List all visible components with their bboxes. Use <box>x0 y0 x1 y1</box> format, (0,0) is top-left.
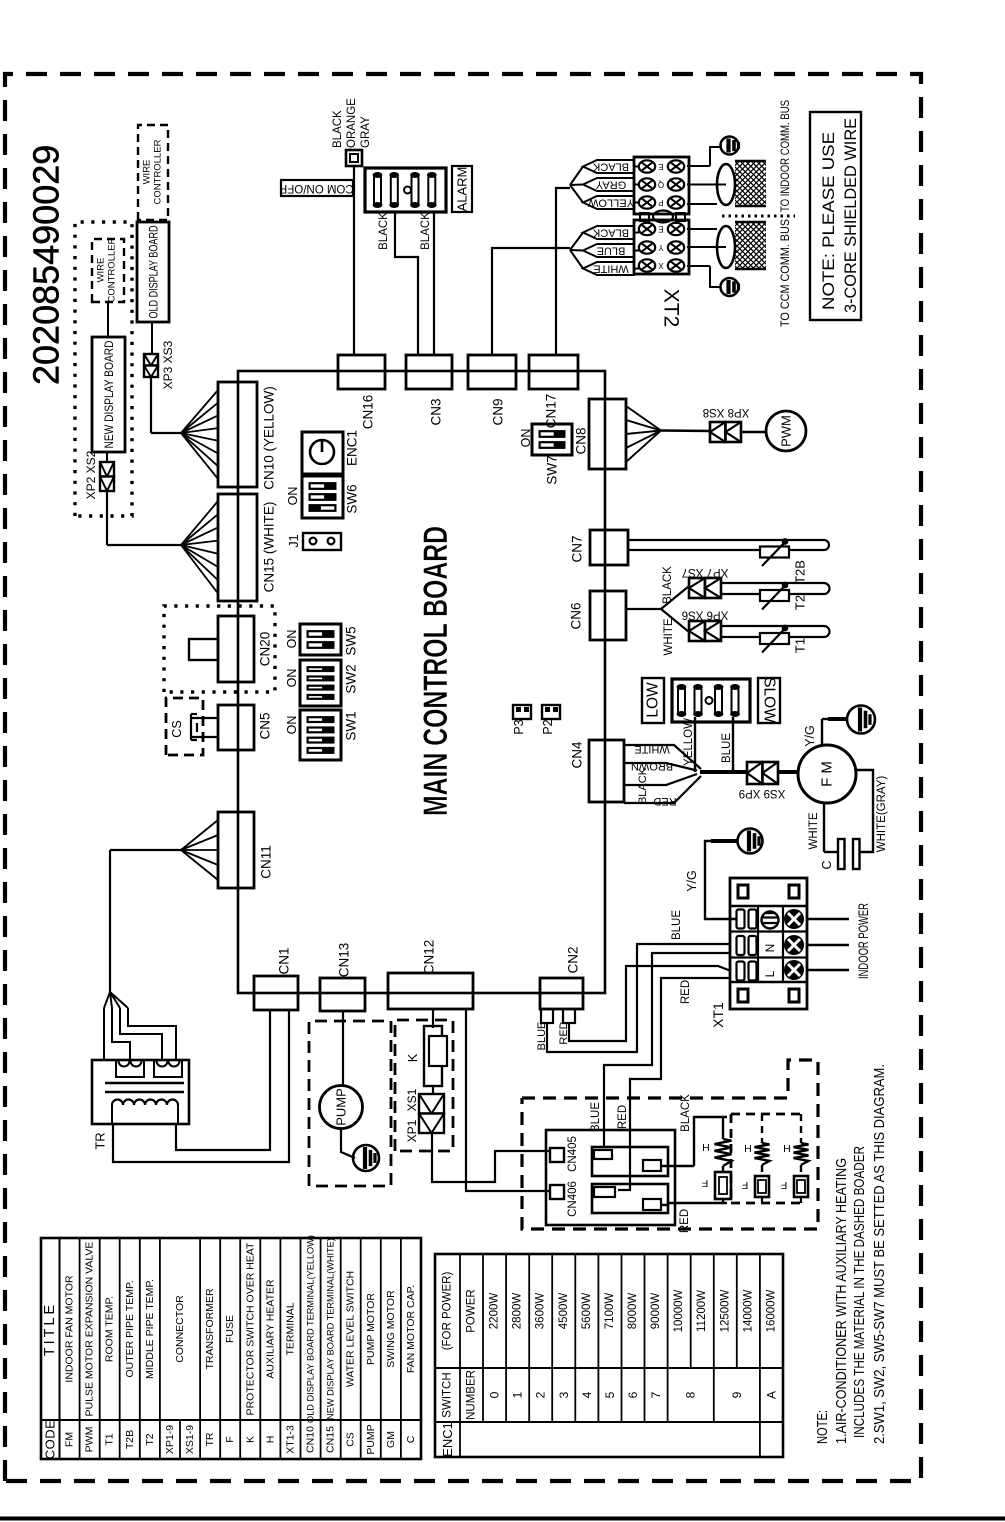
terminal block XT1 <box>730 878 807 1009</box>
protector K dashed box <box>395 1020 453 1151</box>
svg-text:XT2: XT2 <box>660 289 683 328</box>
svg-text:CN16: CN16 <box>361 395 376 430</box>
connector CN2 <box>540 978 583 1009</box>
svg-text:F: F <box>781 1179 787 1191</box>
wires flags to XT2 lower <box>634 233 639 269</box>
svg-text:AUXILIARY HEATER: AUXILIARY HEATER <box>264 1279 276 1379</box>
label ALARM box <box>452 166 472 212</box>
connector CN6 <box>590 591 626 640</box>
svg-text:SW1: SW1 <box>344 711 359 740</box>
svg-text:PWM: PWM <box>779 415 794 447</box>
fuse F1 <box>715 1172 731 1199</box>
svg-text:BLACK: BLACK <box>662 566 674 604</box>
connector pair XS9 XP9 <box>747 762 778 784</box>
svg-text:XP7 XS7: XP7 XS7 <box>682 566 729 578</box>
wire flag tail <box>570 250 583 269</box>
svg-text:L: L <box>763 970 777 977</box>
svg-text:CN7: CN7 <box>570 535 585 562</box>
svg-text:E: E <box>658 225 663 234</box>
svg-text:ENC1: ENC1 <box>440 1422 455 1457</box>
wire XP1 to CN405 <box>432 1133 550 1182</box>
thermistor T2 <box>760 582 789 609</box>
svg-text:CN15: CN15 <box>325 1426 337 1453</box>
fan motor capacitor C <box>838 839 860 869</box>
svg-text:2.SW1, SW2, SW5-SW7 MUST BE SE: 2.SW1, SW2, SW5-SW7 MUST BE SETTED AS TH… <box>872 1064 888 1444</box>
optional heater dashed cell box <box>731 1114 803 1203</box>
svg-text:CN4: CN4 <box>570 741 585 768</box>
main control board outline <box>238 371 605 993</box>
CN8 harness fan <box>626 406 661 462</box>
connector pair XP8 XS8 <box>710 422 741 442</box>
DIP switch SW7 <box>532 424 572 455</box>
wire CN12 pin2 to CN406 <box>466 1009 550 1191</box>
svg-text:XP8 XS8: XP8 XS8 <box>703 406 750 418</box>
primary harness fan to TR <box>104 992 176 1060</box>
connector CN15 <box>218 494 257 601</box>
DIP switch SW2 <box>300 660 341 706</box>
wire controller dashed box B <box>138 125 168 220</box>
wires XT2 to upper cable <box>687 147 726 204</box>
dotted enclosure new display board <box>75 222 132 516</box>
svg-text:ON: ON <box>519 429 533 448</box>
svg-text:K: K <box>244 1436 256 1443</box>
thermistor T2B <box>760 539 789 566</box>
temperature sensor T2B probe <box>628 540 829 550</box>
svg-text:PUMP: PUMP <box>365 1424 377 1454</box>
label WIRE CONTROLLER B <box>142 139 164 204</box>
svg-text:ORANGE: ORANGE <box>346 98 358 148</box>
svg-text:7: 7 <box>649 1391 663 1398</box>
svg-text:WATER LEVEL SWITCH: WATER LEVEL SWITCH <box>345 1271 357 1387</box>
svg-text:5: 5 <box>603 1391 617 1398</box>
svg-text:BLACK: BLACK <box>680 1094 692 1132</box>
ENC1 switch power table <box>435 1254 783 1457</box>
svg-text:CN11: CN11 <box>259 845 274 879</box>
svg-text:14000W: 14000W <box>742 1289 754 1332</box>
notes text <box>815 1064 888 1444</box>
svg-text:2: 2 <box>534 1391 548 1398</box>
wire flag tail <box>570 184 583 187</box>
svg-text:T2: T2 <box>144 1433 156 1445</box>
svg-text:4: 4 <box>580 1391 594 1398</box>
svg-text:FUSE: FUSE <box>224 1315 236 1343</box>
remote plug connector <box>346 150 362 166</box>
svg-text:BLACK: BLACK <box>332 110 344 148</box>
wire CN17 to upper flags <box>556 188 570 355</box>
svg-text:YELLOW: YELLOW <box>587 197 633 209</box>
OLD DISPLAY BOARD box <box>137 222 169 322</box>
dotted enclosure around CN20 <box>164 606 275 692</box>
svg-text:12500W: 12500W <box>719 1289 731 1332</box>
svg-text:XS1-9: XS1-9 <box>184 1425 196 1454</box>
wire Y/G to XT1 <box>705 841 736 919</box>
svg-text:9000W: 9000W <box>650 1293 662 1330</box>
CN10 harness fan <box>181 390 218 479</box>
svg-text:6: 6 <box>626 1391 640 1398</box>
svg-text:WHITE: WHITE <box>808 812 820 849</box>
svg-text:INCLUDES THE MATERIAL IN THE D: INCLUDES THE MATERIAL IN THE DASHED BOAD… <box>852 1146 868 1438</box>
svg-text:PUMP: PUMP <box>334 1088 349 1126</box>
wire BLACK heater to H1 <box>661 1117 727 1166</box>
svg-text:RED: RED <box>558 1021 570 1044</box>
svg-text:ROOM TEMP.: ROOM TEMP. <box>104 1296 116 1362</box>
wire flag tail <box>570 233 583 251</box>
svg-text:PULSE MOTOR EXPANSION VALVE: PULSE MOTOR EXPANSION VALVE <box>84 1242 96 1417</box>
svg-text:0: 0 <box>488 1391 502 1398</box>
svg-text:XP1-9: XP1-9 <box>164 1425 176 1454</box>
CN20 side tab <box>189 639 218 660</box>
wire XP8 to PWM <box>741 431 766 433</box>
flag YELLOW (upper) <box>583 196 634 209</box>
heater resistor H1 <box>715 1117 732 1172</box>
svg-text:T1: T1 <box>793 638 808 653</box>
svg-text:MAIN CONTROL BOARD: MAIN CONTROL BOARD <box>417 526 455 816</box>
svg-text:XT1-3: XT1-3 <box>285 1425 297 1454</box>
wire F3 to bus <box>800 1197 802 1203</box>
CN11 harness fan <box>181 820 218 880</box>
connector CN1 <box>254 976 298 1010</box>
label WIRE CONTROLLER A <box>96 237 118 302</box>
connector CN10 <box>218 382 257 487</box>
connector CN7 <box>590 530 628 565</box>
wire controller A to new display board <box>107 302 109 337</box>
svg-text:TERMINAL: TERMINAL <box>285 1302 297 1355</box>
aux heating dashed enclosure <box>522 1060 818 1229</box>
svg-text:9: 9 <box>730 1391 744 1398</box>
svg-text:CN10: CN10 <box>305 1426 317 1453</box>
connector CN16 <box>338 355 385 389</box>
CN4 wire black <box>624 774 697 785</box>
svg-text:COM ON/OFF: COM ON/OFF <box>280 182 353 194</box>
wire BLUE relay to FM wire <box>732 717 734 772</box>
temperature sensor T2 probe <box>721 583 830 594</box>
svg-text:BLUE: BLUE <box>721 733 733 763</box>
NEW DISPLAY BOARD box <box>92 337 125 452</box>
svg-text:F: F <box>702 1177 708 1189</box>
svg-text:TR: TR <box>93 1132 108 1149</box>
svg-text:WIRE: WIRE <box>96 258 107 283</box>
earth lug above XT1 <box>738 829 763 854</box>
transformer TR <box>92 1060 189 1124</box>
heater resistor H3 (dashed wiring) <box>794 1114 809 1176</box>
svg-text:T2B: T2B <box>793 560 808 584</box>
svg-text:J1: J1 <box>287 534 301 547</box>
COM ON/OFF label box <box>280 180 353 196</box>
CN4 wire red <box>624 776 701 803</box>
wires flags to XT2 upper <box>634 167 639 203</box>
svg-text:3: 3 <box>557 1391 571 1398</box>
shield drain lug lower <box>721 278 739 296</box>
shield drain lug upper <box>721 137 739 155</box>
upper shielded cable <box>717 161 766 206</box>
svg-text:1.AIR-CONDITIONER WITH AUXILIA: 1.AIR-CONDITIONER WITH AUXILIARY HEATING <box>834 1158 850 1444</box>
svg-text:OLD DISPLAY BOARD: OLD DISPLAY BOARD <box>147 225 161 318</box>
wire CN8 to XP8 <box>661 429 710 432</box>
svg-text:CODE: CODE <box>43 1420 58 1460</box>
wire CN16 to remote plug <box>353 166 355 355</box>
svg-text:BLACK: BLACK <box>637 767 649 804</box>
svg-text:T2B: T2B <box>124 1430 136 1449</box>
wire XT1 L to heater CN406 side (red) <box>618 978 731 1190</box>
indoor power leads <box>807 919 849 970</box>
svg-text:RED: RED <box>680 980 692 1004</box>
connector CN3 <box>406 355 452 389</box>
wire flag tail <box>570 185 583 203</box>
svg-text:TITLE: TITLE <box>42 1302 58 1356</box>
svg-text:SW5: SW5 <box>344 626 359 655</box>
svg-text:FAN MOTOR CAP.: FAN MOTOR CAP. <box>405 1285 417 1373</box>
connector pair XP2 XS2 <box>100 462 114 491</box>
wire new display board to XP2 <box>106 452 108 462</box>
CN4 wire white <box>624 745 701 769</box>
pump earth lug <box>353 1145 379 1171</box>
wire old display board to XP3 <box>151 322 153 354</box>
svg-text:PUMP MOTOR: PUMP MOTOR <box>365 1293 377 1365</box>
terminal CN406 <box>550 1185 564 1199</box>
wire CN2 pin1 to XT1 N (blue) <box>547 944 731 1052</box>
wire flag tail <box>570 167 583 186</box>
connector CN8 <box>589 399 626 469</box>
wire pump to lug <box>341 1128 355 1158</box>
DIP switch SW5 <box>300 624 341 655</box>
connector CN4 <box>589 740 624 802</box>
water level switch CS dashed box <box>166 698 203 755</box>
svg-text:XP6 XS6: XP6 XS6 <box>682 609 729 621</box>
svg-text:CN3: CN3 <box>429 398 444 425</box>
svg-text:BLACK: BLACK <box>378 212 390 250</box>
heater element upper <box>592 1147 668 1176</box>
wire CN2 pin2 to XT1 L (red) <box>569 966 731 1041</box>
wire flag tail <box>570 249 583 252</box>
wire CN6 split <box>626 586 689 632</box>
flag BLACK (upper) <box>583 160 634 173</box>
svg-text:(FOR POWER): (FOR POWER) <box>442 1272 454 1351</box>
label LOW box <box>642 678 664 723</box>
svg-text:NOTE:: NOTE: <box>815 1410 831 1444</box>
svg-text:TR: TR <box>204 1432 216 1446</box>
svg-text:RED: RED <box>653 795 676 807</box>
svg-text:Y: Y <box>658 243 664 252</box>
connector CN17 <box>529 355 578 389</box>
pump motor PUMP <box>320 1086 363 1129</box>
jumper J1 <box>303 533 341 550</box>
svg-text:1: 1 <box>511 1391 525 1398</box>
CN2 pin stubs <box>541 1009 575 1023</box>
lower shielded cable <box>717 222 766 269</box>
svg-text:CN8: CN8 <box>574 427 589 454</box>
motor PWM <box>766 411 806 451</box>
wire CN13 to pump <box>342 1011 344 1086</box>
earth stub wire <box>711 839 737 843</box>
svg-text:BLACK: BLACK <box>592 161 629 173</box>
sheet edge line (page bottom) <box>0 1517 1005 1521</box>
indoor fan motor FM <box>798 745 856 803</box>
svg-text:F M: F M <box>819 761 836 787</box>
svg-text:WIRE: WIRE <box>142 160 153 185</box>
svg-text:7100W: 7100W <box>604 1293 616 1330</box>
svg-text:CN15 (WHITE): CN15 (WHITE) <box>262 502 277 593</box>
wire RED heater bottom bus <box>661 1204 668 1206</box>
svg-text:N: N <box>763 944 777 953</box>
svg-text:T1: T1 <box>104 1433 116 1445</box>
wire XS2 to CN15 fan <box>107 491 181 545</box>
svg-text:TO INDOOR COMM. BUS: TO INDOOR COMM. BUS <box>778 100 792 212</box>
heater resistor H2 (dashed wiring) <box>755 1114 770 1176</box>
svg-text:GRAY: GRAY <box>360 116 372 148</box>
svg-text:CONTROLLER: CONTROLLER <box>107 237 118 302</box>
svg-text:SWITCH: SWITCH <box>442 1372 454 1417</box>
component legend table CODE/TITLE <box>41 1235 421 1459</box>
svg-text:P2: P2 <box>541 719 555 734</box>
svg-text:CS: CS <box>345 1432 357 1447</box>
svg-text:PWM: PWM <box>84 1427 96 1453</box>
wire XT1 N to heater CN405 (blue) <box>604 953 731 1148</box>
wire K to XS1 <box>432 1086 434 1094</box>
svg-text:MIDDLE PIPE TEMP.: MIDDLE PIPE TEMP. <box>144 1279 156 1379</box>
CS switch symbol <box>191 714 218 740</box>
svg-text:XP2 XS2: XP2 XS2 <box>84 450 98 499</box>
svg-text:Y/G: Y/G <box>685 870 699 892</box>
svg-text:4500W: 4500W <box>558 1293 570 1330</box>
svg-text:NEW DISPLAY BOARD: NEW DISPLAY BOARD <box>102 340 116 448</box>
svg-text:ENC1: ENC1 <box>345 430 360 466</box>
svg-text:11200W: 11200W <box>696 1290 708 1332</box>
svg-text:CN12: CN12 <box>422 940 437 975</box>
svg-text:F: F <box>224 1436 236 1442</box>
svg-text:ON: ON <box>285 630 299 649</box>
svg-text:SW7: SW7 <box>545 455 560 484</box>
svg-text:2800W: 2800W <box>512 1293 524 1330</box>
svg-text:202085490029: 202085490029 <box>26 145 67 385</box>
flag WHITE (lower) <box>583 262 634 275</box>
svg-text:WHITE: WHITE <box>663 618 675 655</box>
wire XS3 to CN10 fan <box>151 377 181 433</box>
svg-text:LOW: LOW <box>645 682 662 718</box>
wire CN11 to transformer <box>110 850 181 992</box>
svg-text:ALARM: ALARM <box>455 167 470 212</box>
connector CN9 <box>468 355 516 389</box>
svg-text:WHITE: WHITE <box>634 743 669 755</box>
svg-text:CN5: CN5 <box>258 712 273 739</box>
connector CN13 <box>320 978 365 1011</box>
secondary wires TR to CN1 <box>113 1010 289 1162</box>
svg-text:SLOW: SLOW <box>761 677 778 723</box>
svg-text:CN406: CN406 <box>567 1181 579 1217</box>
svg-text:ON: ON <box>286 487 300 506</box>
svg-text:FM: FM <box>64 1432 76 1447</box>
terminal block XT2 upper half <box>634 157 689 214</box>
label SLOW box <box>758 677 780 723</box>
jumper P3 <box>513 705 531 719</box>
svg-text:CN405: CN405 <box>567 1136 579 1172</box>
svg-text:CN10 (YELLOW): CN10 (YELLOW) <box>262 386 277 490</box>
connector pair XP6 XS6 <box>689 621 721 641</box>
rotary encoder ENC1 <box>302 432 343 474</box>
svg-text:NOTE: PLEASE USE: NOTE: PLEASE USE <box>820 132 838 310</box>
heater element lower <box>592 1184 668 1213</box>
svg-text:PROTECTOR SWITCH OVER HEAT: PROTECTOR SWITCH OVER HEAT <box>244 1242 256 1415</box>
flag BLUE (lower) <box>583 244 634 257</box>
svg-text:WHITE(GRAY): WHITE(GRAY) <box>876 776 888 853</box>
svg-text:P3: P3 <box>512 719 526 734</box>
svg-text:BLACK: BLACK <box>420 212 432 250</box>
protector switch K <box>424 1026 447 1086</box>
svg-text:3-CORE SHIELDED WIRE: 3-CORE SHIELDED WIRE <box>842 118 860 313</box>
svg-text:5600W: 5600W <box>581 1293 593 1330</box>
svg-text:CN13: CN13 <box>337 943 352 978</box>
svg-text:K: K <box>406 1053 420 1062</box>
svg-text:OLD DISPLAY BOARD TERMINAL(YEL: OLD DISPLAY BOARD TERMINAL(YELLOW) <box>306 1235 316 1423</box>
fan speed relay block <box>672 679 750 722</box>
svg-text:H: H <box>264 1436 276 1444</box>
svg-text:Y/G: Y/G <box>803 725 817 747</box>
svg-text:GRAY: GRAY <box>595 179 626 191</box>
svg-text:CN2: CN2 <box>566 946 581 973</box>
svg-text:8000W: 8000W <box>627 1293 639 1330</box>
flag BLACK (lower) <box>583 226 634 239</box>
flag GRAY (upper) <box>583 178 634 191</box>
svg-text:INDOOR FAN MOTOR: INDOOR FAN MOTOR <box>64 1275 76 1383</box>
svg-text:CN9: CN9 <box>491 398 506 425</box>
wire capacitor to FM right <box>856 770 873 852</box>
connector CN20 <box>218 616 254 682</box>
svg-text:XP3 XS3: XP3 XS3 <box>161 340 175 389</box>
svg-text:ON: ON <box>285 716 299 735</box>
svg-text:OUTER PIPE TEMP.: OUTER PIPE TEMP. <box>124 1280 136 1377</box>
svg-text:CS: CS <box>170 720 184 737</box>
connector pair XP3 XS3 <box>144 354 158 377</box>
svg-text:RED: RED <box>617 1105 629 1129</box>
svg-text:BLUE: BLUE <box>590 1102 602 1132</box>
svg-text:NEW DISPLAY BOARD TERMINAL(WHI: NEW DISPLAY BOARD TERMINAL(WHITE) <box>326 1238 336 1420</box>
svg-text:BLACK: BLACK <box>592 227 629 239</box>
svg-text:X: X <box>658 261 664 270</box>
svg-text:T2: T2 <box>793 595 808 610</box>
svg-text:A: A <box>765 1391 779 1399</box>
connector CN12 <box>388 973 473 1009</box>
wire ALARM pin2 to CN3 <box>433 212 435 355</box>
svg-text:P: P <box>658 198 663 207</box>
XT2 joining tabs and hole <box>640 211 685 223</box>
svg-text:E: E <box>658 162 663 171</box>
wire FM to capacitor <box>824 803 839 852</box>
svg-text:BLUE: BLUE <box>536 1022 548 1051</box>
svg-text:TO CCM COMM. BUS: TO CCM COMM. BUS <box>778 219 792 327</box>
svg-text:CN20: CN20 <box>258 632 273 667</box>
connector pair XP7 XS7 <box>689 578 721 598</box>
svg-text:XS9 XP9: XS9 XP9 <box>739 787 786 799</box>
terminal CN405 <box>550 1148 564 1162</box>
wire ALARM pin1 to CN3 <box>395 212 418 355</box>
svg-text:WHITE: WHITE <box>593 263 628 275</box>
svg-text:C: C <box>820 860 834 869</box>
wire XP9 to FM <box>778 770 798 774</box>
svg-text:2200W: 2200W <box>489 1293 501 1330</box>
svg-text:SWING MOTOR: SWING MOTOR <box>385 1290 397 1368</box>
svg-text:CN6: CN6 <box>569 602 584 629</box>
wire F2 to bus <box>761 1197 763 1203</box>
svg-text:SW6: SW6 <box>345 484 360 513</box>
svg-text:NUMBER: NUMBER <box>466 1370 478 1420</box>
CN4 wire brown <box>624 763 697 771</box>
svg-text:RED: RED <box>679 1209 691 1233</box>
svg-text:ON: ON <box>285 669 299 688</box>
svg-text:CONTROLLER: CONTROLLER <box>153 139 164 204</box>
svg-text:BLUE: BLUE <box>597 245 626 257</box>
svg-text:GM: GM <box>385 1431 397 1448</box>
svg-text:POWER: POWER <box>466 1289 478 1332</box>
connector pair XS1 XP1 <box>419 1094 444 1133</box>
